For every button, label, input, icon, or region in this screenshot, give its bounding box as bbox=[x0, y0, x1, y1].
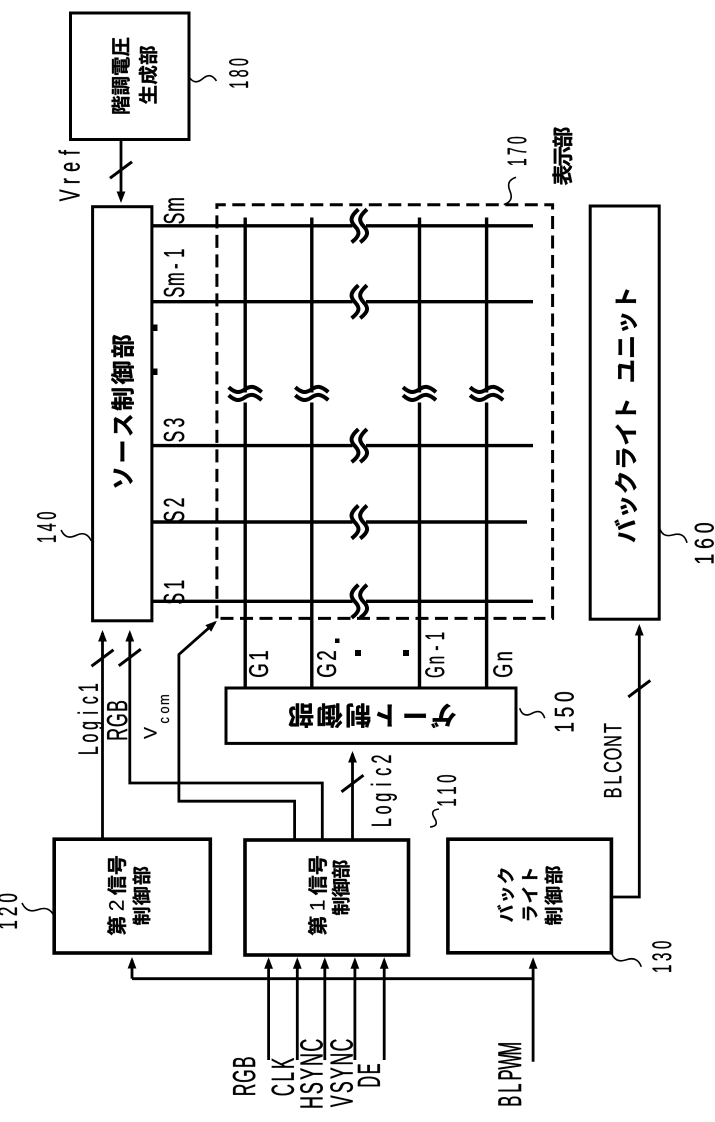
label Vref bbox=[59, 150, 80, 201]
slash Vref bus bbox=[110, 162, 132, 178]
block: 1st signal controller 第1信号制御部 (110) bbox=[245, 840, 409, 955]
block: backlight controller バックライト制御部 (130) bbox=[448, 839, 612, 953]
wire S1 bbox=[152, 600, 353, 603]
block: source controller ソース制御部 (140) bbox=[93, 207, 152, 621]
wire: BLCONT from 130 to backlight unit bbox=[611, 627, 639, 897]
labels S1..Sm bbox=[164, 581, 185, 604]
ref label 110 bbox=[437, 775, 456, 805]
ref label 180 bbox=[229, 59, 248, 88]
wire input HSYNC bbox=[323, 961, 326, 1061]
label Logic1 bbox=[78, 684, 104, 754]
break symbol on Sm-1 bbox=[352, 285, 359, 318]
wire input VSYNC bbox=[353, 961, 356, 1061]
break symbol on G1 bbox=[229, 395, 262, 400]
wire S3 bbox=[152, 444, 353, 447]
label Logic2 bbox=[371, 755, 397, 825]
ref squiggle 170 bbox=[500, 176, 520, 207]
block: gate controller ゲート制御部 (150), text rotated 180deg bbox=[226, 688, 516, 743]
label DE bbox=[358, 1064, 380, 1086]
wire: BLPWM into 130 bbox=[532, 961, 535, 1062]
labels G1..Gn bbox=[249, 651, 268, 677]
break symbol on S1 bbox=[352, 585, 359, 618]
ref squiggle 180 bbox=[188, 72, 217, 85]
break symbol on G2 bbox=[295, 395, 328, 400]
ref label 120 bbox=[0, 894, 17, 929]
wire: Logic2 from 110 to gate controller bbox=[351, 754, 354, 840]
slash BLCONT bbox=[628, 680, 650, 697]
label BLPWM bbox=[498, 1043, 521, 1105]
block: display unit dashed box 表示部 (170) bbox=[217, 205, 553, 619]
label VSYNC bbox=[330, 1039, 353, 1107]
ref squiggle 150 bbox=[518, 704, 546, 722]
wire input CLK bbox=[296, 961, 299, 1061]
ref squiggle 160 bbox=[657, 523, 689, 546]
ref label 150 bbox=[555, 692, 574, 731]
wire: Logic1 from 120 to source controller bbox=[101, 633, 104, 839]
wire: Vcom from 110 to display panel corner bbox=[179, 623, 295, 841]
block: gradation voltage generator 階調電圧生成部 (180) bbox=[71, 13, 190, 140]
wire input RGB bbox=[267, 961, 270, 1061]
slash RGB bbox=[119, 649, 141, 666]
wire Sm-1 bbox=[152, 300, 353, 303]
break symbol on S2 bbox=[352, 506, 359, 539]
ref label 140 bbox=[37, 512, 56, 542]
label BLCONT bbox=[604, 723, 622, 797]
wire input DE bbox=[383, 961, 386, 1061]
break symbol on Gn-1 bbox=[403, 395, 436, 400]
wire G1 bbox=[243, 403, 246, 689]
wire: Vref arrow from 180 into source controller bbox=[120, 140, 123, 200]
slash Logic1 bbox=[92, 650, 114, 666]
block: 2nd signal controller 第2信号制御部 (120) bbox=[54, 839, 210, 953]
label RGB bbox=[233, 1057, 256, 1094]
label HSYNC bbox=[300, 1039, 323, 1107]
break symbol on Sm bbox=[352, 209, 359, 242]
wire: input bus branch to 120 bbox=[132, 977, 533, 980]
label 表示部 bbox=[552, 127, 572, 185]
slash Logic2 bbox=[342, 775, 364, 792]
ref squiggle 140 bbox=[60, 526, 93, 545]
break symbol on S3 bbox=[352, 429, 359, 462]
wire S2 bbox=[152, 520, 353, 523]
ellipsis dots between S3 and Sm-1 bbox=[151, 369, 158, 376]
wire Gn-1 bbox=[418, 403, 421, 689]
wire: RGB from 110 to source controller bbox=[130, 633, 322, 840]
block: backlight unit バックライト ユニット (160) bbox=[590, 206, 659, 619]
break symbol on Gn bbox=[470, 395, 503, 400]
ref label 160 bbox=[695, 523, 714, 563]
wire Gn bbox=[485, 403, 488, 689]
ref squiggle 110 bbox=[426, 807, 442, 829]
ref label 170 bbox=[507, 137, 526, 165]
ref squiggle 130 bbox=[610, 949, 643, 970]
ref label 130 bbox=[652, 941, 671, 972]
wire G2 bbox=[310, 403, 313, 689]
label RGB bbox=[107, 701, 128, 739]
label CLK bbox=[271, 1058, 294, 1095]
ref squiggle 120 bbox=[20, 899, 55, 920]
ellipsis dots between G2 and Gn-1 bbox=[355, 650, 361, 656]
label Vcom bbox=[144, 727, 156, 739]
wire Sm bbox=[152, 224, 353, 227]
